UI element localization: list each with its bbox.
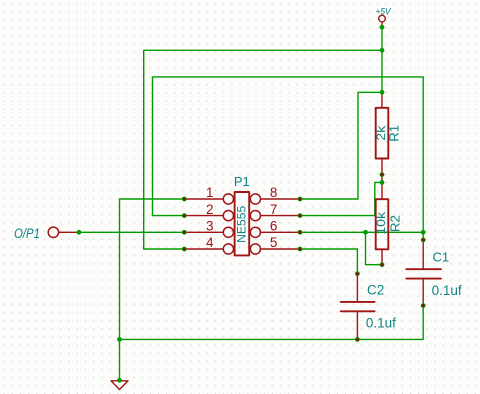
node pin3 end bbox=[182, 230, 187, 235]
svg-text:2: 2 bbox=[206, 202, 214, 217]
node C2 top pin end bbox=[355, 271, 360, 276]
node R2 top junction bbox=[380, 180, 385, 185]
svg-text:4: 4 bbox=[206, 235, 214, 250]
pin 6 bbox=[261, 231, 301, 233]
node jog on pin6 wire bbox=[363, 230, 368, 235]
wire: pin5 control to C2 top bbox=[300, 249, 357, 274]
wire: ground bus along bottom up to C1 bottom bbox=[120, 306, 424, 340]
svg-text:2k: 2k bbox=[374, 125, 388, 141]
svg-text:0.1uf: 0.1uf bbox=[366, 316, 396, 331]
svg-text:C2: C2 bbox=[367, 282, 384, 297]
node top rail / +5V column bbox=[380, 48, 385, 53]
node pin4 end bbox=[182, 247, 187, 252]
svg-text:3: 3 bbox=[206, 219, 214, 234]
svg-text:8: 8 bbox=[270, 185, 278, 200]
wire: pin7 discharge to R1/R2 junction bbox=[300, 182, 382, 215]
node R1 bottom pin end bbox=[380, 172, 385, 177]
svg-text:O/P1: O/P1 bbox=[14, 226, 40, 241]
pin 5 bbox=[261, 248, 301, 250]
wire: output from port to pin3 bbox=[79, 231, 184, 233]
svg-text:0.1uf: 0.1uf bbox=[432, 283, 462, 298]
node ground symbol top bbox=[117, 378, 122, 383]
pin circles right bbox=[250, 194, 260, 204]
IC body bbox=[235, 192, 250, 255]
wire: R2 bottom jog to pin6 net bbox=[366, 232, 383, 264]
ground bbox=[111, 381, 128, 390]
node C1 bottom pin end bbox=[421, 303, 426, 308]
node below +5V stem bbox=[380, 25, 385, 30]
node pin1 end bbox=[182, 197, 187, 202]
pin circles left bbox=[223, 194, 233, 204]
wire: C1 top stub bbox=[422, 232, 424, 240]
capacitor C2 bbox=[341, 274, 396, 340]
svg-text:C1: C1 bbox=[433, 250, 450, 265]
pin 3 bbox=[184, 231, 223, 233]
node ground bus corner bbox=[117, 337, 122, 342]
wire: +5V rail vertical down to R1 top bbox=[381, 27, 383, 92]
connector P1 (NE555) bbox=[184, 174, 300, 255]
pin 2 bbox=[184, 215, 223, 217]
svg-text:R1: R1 bbox=[388, 125, 402, 142]
pin 8 bbox=[261, 198, 301, 200]
pin 7 bbox=[261, 215, 301, 217]
power +5V bbox=[376, 7, 392, 28]
svg-text:P1: P1 bbox=[234, 174, 250, 189]
svg-text:7: 7 bbox=[270, 202, 278, 217]
node O/P port end bbox=[77, 230, 82, 235]
node R2 bottom pin end bbox=[380, 262, 385, 267]
wire: pin8 VCC from R1 top junction bbox=[300, 92, 382, 199]
node pin2 end bbox=[182, 213, 187, 218]
node right vertical meets pin6 wire bbox=[421, 230, 426, 235]
resistor R2 bbox=[374, 199, 403, 265]
node R1 top bbox=[380, 90, 385, 95]
svg-text:5: 5 bbox=[270, 235, 278, 250]
capacitor C1 bbox=[406, 240, 462, 306]
wire: pin6 threshold row to right vertical bbox=[300, 231, 423, 233]
node C2 bottom on ground bus bbox=[355, 337, 360, 342]
svg-text:R2: R2 bbox=[389, 215, 403, 232]
node pin6 end bbox=[298, 230, 303, 235]
wire: top rail from pin4 column to +5V (net RESET/+5V) bbox=[144, 50, 382, 249]
svg-text:1: 1 bbox=[206, 185, 214, 200]
port O/P1 bbox=[14, 226, 79, 241]
svg-text:NE555: NE555 bbox=[235, 205, 249, 242]
node pin8 end bbox=[298, 197, 303, 202]
resistor R1 bbox=[374, 92, 402, 199]
svg-text:10k: 10k bbox=[374, 211, 388, 235]
wire: second rail pin2 to pin6 column (net TRIG/THR) bbox=[153, 77, 424, 232]
svg-text:6: 6 bbox=[270, 219, 278, 234]
pin 4 bbox=[184, 248, 223, 250]
node pin5 end bbox=[298, 247, 303, 252]
node C1 top pin end bbox=[421, 238, 426, 243]
pin 1 bbox=[184, 198, 223, 200]
wire: pin1 GND down to ground bbox=[120, 199, 185, 380]
pin-end red overlays bbox=[183, 173, 425, 341]
node pin7 end bbox=[298, 213, 303, 218]
